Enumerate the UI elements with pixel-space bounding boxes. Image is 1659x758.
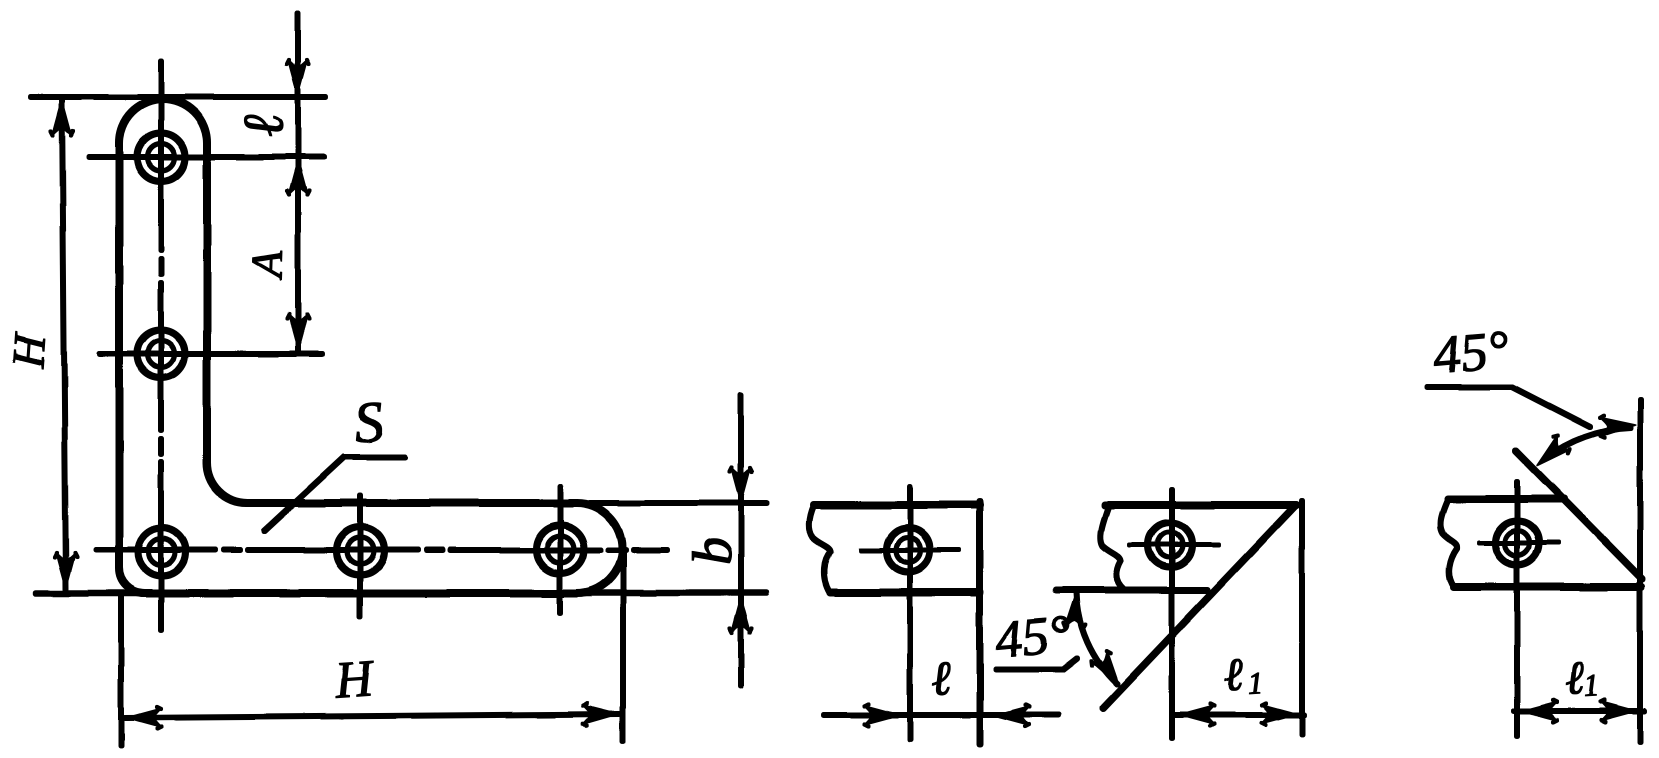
label b (692, 539, 731, 563)
arrow l1 left (1178, 704, 1215, 726)
arrow arc bottom view2 (1089, 649, 1128, 692)
label l1 view3 (1566, 663, 1586, 695)
arrow l right (outside) (993, 705, 1030, 727)
arrow b down (730, 467, 752, 504)
top edge extension for b (590, 501, 766, 506)
arrow arc lower view3 (1530, 433, 1572, 474)
label 45 deg view3 (1432, 331, 1509, 374)
horizontal centerline holes 3-5 (96, 548, 667, 553)
arrow H bottom (55, 552, 77, 589)
45 leader underline view2 (996, 659, 1077, 670)
label 45 deg view2 (994, 616, 1071, 659)
bar top edge (1448, 496, 1564, 503)
hole v1 horizontal centerline (861, 548, 959, 552)
hole v3 vertical centerline (1515, 482, 1520, 736)
hole 4 outer (336, 527, 384, 575)
45 leader view3 (1427, 387, 1590, 427)
hole 5 outer (536, 525, 584, 573)
hole 2 inner (148, 341, 175, 368)
label A (252, 250, 282, 280)
vertical centerline hole 4 (358, 496, 363, 616)
arrow l down (287, 59, 309, 96)
label S (354, 402, 384, 443)
dimension l1 line view3 (1514, 709, 1644, 714)
45-degree cut diagonal (1516, 451, 1642, 579)
45-degree cut diagonal (1103, 506, 1295, 708)
bar bottom edge + left extension (1056, 587, 1207, 593)
dimension l1 line (1174, 713, 1304, 718)
hole 4 inner (347, 538, 374, 565)
dimension b line (739, 395, 744, 686)
bracket outline (119, 99, 622, 593)
bar right edge + extension (977, 502, 983, 744)
label l top (script ell rotated) (244, 114, 283, 138)
bottom extension line (36, 590, 766, 596)
hole v3 horizontal centerline (1479, 541, 1558, 545)
dimension H bottom line (125, 714, 619, 718)
bar top edge (814, 502, 980, 509)
hole 3 inner (149, 539, 176, 566)
vertical centerline of upright arm (159, 62, 164, 630)
hole v1 inner (896, 538, 921, 563)
arrow H top (51, 99, 73, 136)
break line left (1101, 508, 1124, 589)
hole v1 outer (886, 528, 930, 572)
S leader line (264, 457, 404, 531)
hole v2 vertical centerline (1170, 490, 1175, 738)
hole 5 inner (547, 536, 574, 563)
break line left (1441, 499, 1458, 587)
arrow to extension view3 (1598, 414, 1636, 438)
label l1 view2 (1224, 659, 1244, 691)
right bottom extension line (621, 553, 626, 741)
hole v1 vertical centerline (908, 487, 913, 739)
hole v2 horizontal centerline (1130, 543, 1218, 547)
hole 3 outer (138, 528, 186, 576)
hole 2 outer (137, 330, 185, 378)
dimension l/A line (296, 13, 301, 351)
bar top edge (1105, 502, 1296, 509)
horizontal centerline hole 1 (89, 155, 324, 160)
bar bottom edge (831, 589, 980, 596)
label l1 subscript view2 (1248, 672, 1260, 693)
top extension line (31, 95, 325, 100)
arrow l1 right view3 (1600, 700, 1637, 722)
arrow l left (outside) (864, 704, 901, 726)
hole v2 outer (1148, 523, 1192, 567)
arrow l up (287, 159, 309, 196)
right extension line (1638, 400, 1643, 742)
hole v3 inner (1505, 531, 1530, 556)
break line left (809, 505, 831, 592)
label l view1 (script ell) (931, 663, 951, 696)
arrow H-bottom left (125, 707, 162, 729)
right extension line (1300, 501, 1305, 734)
dimension H vertical line (62, 99, 66, 589)
hole v2 inner (1158, 533, 1183, 558)
45 angle arc view2 (1076, 592, 1117, 684)
label H bottom (333, 662, 376, 699)
45 angle arc view3 (1545, 428, 1630, 459)
hole 1 inner (148, 144, 175, 171)
hole 1 outer (137, 133, 185, 181)
arrow b up (730, 597, 752, 634)
arrow H-bottom right (582, 703, 619, 726)
dimension l line (824, 713, 1058, 718)
horizontal centerline hole 2 (100, 352, 322, 357)
bar bottom edge (1454, 584, 1641, 591)
hole v3 outer (1495, 521, 1539, 565)
vertical centerline hole 5 (558, 487, 563, 612)
left bottom extension line (119, 594, 124, 746)
label H vertical (13, 331, 46, 369)
arrow l1 left view3 (1521, 700, 1558, 722)
arrow A down (287, 314, 309, 351)
label l1 subscript view3 (1585, 675, 1597, 696)
arrow arc top view2 (1063, 591, 1087, 629)
arrow l1 right (1261, 703, 1298, 725)
